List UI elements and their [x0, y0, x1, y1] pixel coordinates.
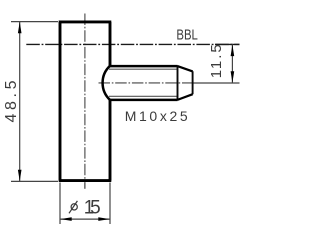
svg-text:M10x25: M10x25 — [125, 108, 188, 124]
svg-text:BBL: BBL — [176, 26, 198, 43]
svg-text:15: 15 — [84, 198, 101, 219]
svg-text:11.5: 11.5 — [208, 44, 225, 78]
svg-text:48.5: 48.5 — [3, 80, 20, 122]
